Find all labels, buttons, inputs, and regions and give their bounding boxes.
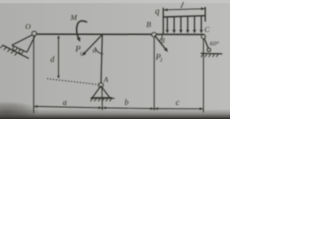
svg-text:q: q — [155, 6, 160, 16]
svg-text:α: α — [93, 47, 97, 54]
svg-text:60°: 60° — [210, 40, 220, 47]
svg-text:b: b — [125, 98, 129, 107]
svg-text:A: A — [103, 76, 109, 84]
svg-text:1: 1 — [80, 52, 83, 58]
svg-text:2: 2 — [160, 58, 163, 64]
svg-text:C: C — [204, 25, 210, 34]
svg-text:a: a — [63, 98, 67, 107]
svg-text:B: B — [146, 20, 151, 29]
svg-text:O: O — [25, 22, 31, 31]
svg-text:β: β — [160, 37, 165, 45]
svg-text:c: c — [176, 97, 180, 107]
svg-text:M: M — [69, 13, 77, 22]
